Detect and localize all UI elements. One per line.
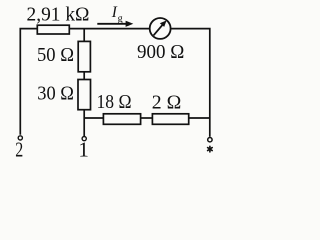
svg-text:30 Ω: 30 Ω — [37, 83, 74, 105]
svg-text:2,91 kΩ: 2,91 kΩ — [27, 4, 90, 26]
wire stub: top wire down into R 50 — [83, 29, 85, 42]
resistor R 18 Ω — [103, 114, 140, 125]
svg-text:g: g — [118, 13, 123, 24]
label Ig — [111, 4, 123, 24]
resistor R 2.91 kΩ — [37, 25, 69, 34]
galvanometer G (meter circle with needle arrow) — [150, 18, 171, 39]
current direction arrow Ig — [97, 21, 133, 27]
wire: R 18 to R 2 — [141, 117, 153, 119]
wire top right: galvanometer to corner, down to terminal * — [171, 29, 210, 137]
wire bottom branch: node under R 30 to R 18 — [84, 117, 103, 119]
wire left branch: from terminal 2 up and across to R 2.91k — [20, 29, 37, 135]
svg-text:1: 1 — [78, 138, 89, 161]
resistor R 50 Ω — [78, 41, 90, 71]
svg-text:2: 2 — [15, 138, 23, 161]
terminal 1 — [82, 137, 86, 141]
resistor R 30 Ω — [78, 80, 91, 110]
wire: R 50 to R 30 — [83, 72, 85, 80]
resistor R 2 Ω — [152, 114, 188, 125]
svg-text:18 Ω: 18 Ω — [97, 91, 132, 113]
svg-text:900 Ω: 900 Ω — [137, 41, 184, 63]
terminal 2 — [18, 136, 22, 140]
svg-text:2 Ω: 2 Ω — [152, 91, 182, 113]
wire: R 2 to right branch — [189, 117, 210, 119]
node label * (asterisk) — [208, 146, 213, 152]
terminal * — [208, 138, 212, 142]
wire top: R 2.91k to galvanometer — [70, 28, 150, 30]
wire: R 30 down to terminal 1 — [83, 110, 85, 136]
svg-text:50 Ω: 50 Ω — [37, 44, 74, 66]
